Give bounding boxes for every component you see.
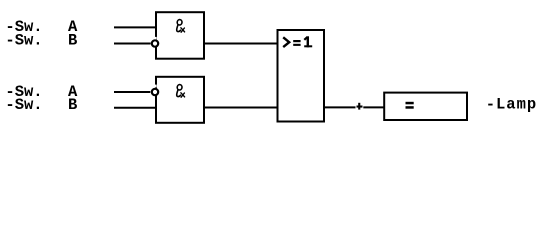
and-gate U1 box	[156, 12, 204, 59]
junction plus sign	[357, 103, 363, 110]
wire U2 output to OR U3	[205, 107, 278, 109]
wire input B to AND U1 bubble	[114, 43, 151, 45]
wire U3 output to plus junction	[325, 106, 356, 108]
svg-text:B: B	[68, 96, 77, 114]
coil label =	[406, 102, 414, 109]
wire U1 output to OR U3	[205, 43, 278, 45]
svg-text:-Sw.: -Sw.	[5, 96, 42, 114]
or-gate U3 box	[278, 30, 325, 122]
node Sw.A label (top)	[5, 18, 78, 36]
inverter bubble U1 input B	[152, 37, 158, 47]
wire input B to AND U2	[114, 107, 156, 109]
svg-text:-Sw.: -Sw.	[5, 31, 42, 49]
inverter bubble U2 input A	[152, 85, 158, 96]
and-gate U2 label &	[177, 84, 185, 97]
coil/assign box	[384, 93, 467, 120]
or-gate U3 label >=1	[283, 36, 312, 47]
and-gate U2 box	[156, 77, 204, 123]
wire plus junction to coil box	[363, 106, 384, 108]
svg-text:B: B	[68, 31, 77, 49]
node Sw.B label (top)	[5, 31, 77, 49]
wire input A to AND U1	[114, 26, 156, 28]
svg-text:-Lamp: -Lamp	[486, 95, 538, 113]
node Sw.A label (bottom)	[5, 83, 78, 101]
and-gate U1 label &	[177, 19, 185, 32]
node Sw.B label (bottom)	[5, 96, 77, 114]
wire input A to AND U2 bubble	[114, 91, 150, 93]
